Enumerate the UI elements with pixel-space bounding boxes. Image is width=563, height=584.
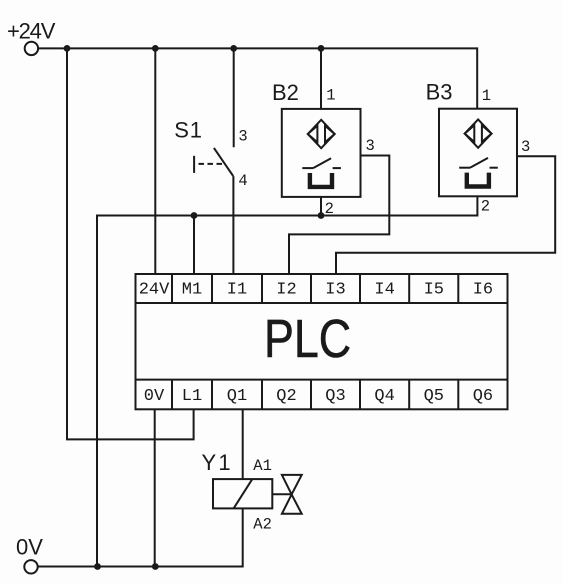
- junction dot 0V rail/0V terminal: [152, 563, 159, 570]
- wire S1 upper: [233, 48, 235, 147]
- svg-text:+24V: +24V: [7, 19, 56, 44]
- svg-text:1: 1: [326, 86, 335, 104]
- wire M1 branch: [193, 216, 195, 275]
- wire S1 lower to I1: [232, 176, 234, 274]
- wire B2 pin 1: [320, 48, 322, 109]
- svg-text:I4: I4: [374, 280, 394, 299]
- svg-text:3: 3: [238, 127, 247, 145]
- sensor B2 contact blade: [313, 158, 331, 168]
- valve bottom triangle: [282, 494, 302, 513]
- pushbutton S1 actuator bar: [193, 156, 195, 173]
- svg-text:I3: I3: [325, 280, 345, 299]
- sensor B2 contact right lead: [333, 167, 341, 169]
- svg-text:I5: I5: [424, 280, 444, 299]
- junction dot +24V/S1: [230, 45, 237, 52]
- sensor B3 contact right lead: [490, 167, 498, 169]
- PLC bottom row separators: [172, 380, 458, 410]
- pushbutton S1 blade: [214, 148, 233, 176]
- svg-text:1: 1: [482, 87, 491, 105]
- svg-text:2: 2: [325, 200, 334, 218]
- svg-text:Q6: Q6: [473, 387, 493, 406]
- wire B2 pin 2: [320, 197, 322, 216]
- sensor B2 diamond: [308, 120, 335, 148]
- solenoid coil Y1 box: [213, 479, 272, 508]
- sensor B3 diamond right triangle: [482, 125, 492, 142]
- wire +24V rail: [39, 48, 477, 108]
- sensor B3 box: [439, 109, 517, 197]
- junction dot B2 pin2/0V net: [318, 212, 325, 219]
- wire 0V rail: [38, 508, 243, 566]
- svg-text:Y1: Y1: [202, 450, 233, 475]
- junction dot +24V/B2: [318, 45, 325, 52]
- PLC top terminal row line: [136, 302, 508, 304]
- svg-text:24V: 24V: [139, 280, 170, 299]
- PLC outline: [136, 274, 508, 409]
- sensor B3 actuator U: [467, 173, 489, 187]
- svg-text:S1: S1: [174, 117, 203, 142]
- junction dot M1/0V net: [191, 212, 198, 219]
- wire 0V net to B3 pin 2: [97, 196, 477, 566]
- svg-text:A2: A2: [253, 515, 272, 533]
- sensor B2 actuator U: [310, 173, 332, 187]
- svg-text:3: 3: [366, 137, 375, 155]
- sensor B2 box: [282, 109, 361, 197]
- svg-text:0V: 0V: [144, 387, 165, 406]
- PLC top row separators: [172, 274, 458, 303]
- sensor B3 contact left lead: [459, 167, 470, 169]
- sensor B2 diamond right triangle: [325, 126, 335, 143]
- sensor B3 diamond: [465, 119, 492, 147]
- svg-text:Q5: Q5: [424, 387, 444, 406]
- svg-text:Q1: Q1: [227, 387, 247, 406]
- svg-text:I1: I1: [227, 280, 247, 299]
- svg-text:2: 2: [481, 197, 490, 215]
- 0V supply terminal: [24, 560, 37, 573]
- wire B3 pin 3 to I3: [336, 156, 555, 274]
- sensor B2 contact left lead: [302, 167, 313, 169]
- junction dot +24V/PLC 24V: [152, 45, 159, 52]
- svg-text:Q4: Q4: [374, 387, 394, 406]
- wire 0V terminal drop: [154, 409, 156, 566]
- junction dot +24V/L1 feed: [64, 45, 71, 52]
- sensor B3 contact blade: [470, 158, 488, 168]
- +24V supply terminal: [25, 42, 38, 55]
- solenoid coil Y1 diagonal: [234, 479, 253, 508]
- PLC bottom terminal row line: [136, 379, 508, 381]
- wire B2 pin 3 to I2: [289, 156, 389, 275]
- sensor B3 diamond left triangle: [465, 125, 475, 142]
- svg-text:PLC: PLC: [264, 308, 351, 369]
- svg-text:B2: B2: [272, 80, 299, 105]
- svg-text:M1: M1: [182, 280, 202, 299]
- sensor B2 diamond left triangle: [308, 126, 318, 143]
- junction dot 0V rail left: [94, 563, 101, 570]
- pushbutton S1 actuator link: [199, 163, 223, 165]
- wire drop to 24V terminal: [154, 48, 156, 274]
- wire Q1 to coil Y1: [242, 409, 244, 479]
- svg-text:L1: L1: [182, 387, 202, 406]
- svg-text:3: 3: [521, 138, 530, 156]
- svg-text:B3: B3: [426, 80, 453, 105]
- svg-text:I6: I6: [473, 280, 493, 299]
- valve top triangle: [282, 475, 302, 495]
- wire coil to valve: [272, 493, 291, 495]
- wire drop to L1 feed: [67, 48, 194, 439]
- svg-text:I2: I2: [276, 280, 296, 299]
- svg-text:Q2: Q2: [276, 387, 296, 406]
- svg-text:Q3: Q3: [325, 387, 345, 406]
- svg-text:0V: 0V: [16, 534, 43, 559]
- svg-text:A1: A1: [253, 457, 272, 475]
- svg-text:4: 4: [238, 172, 247, 190]
